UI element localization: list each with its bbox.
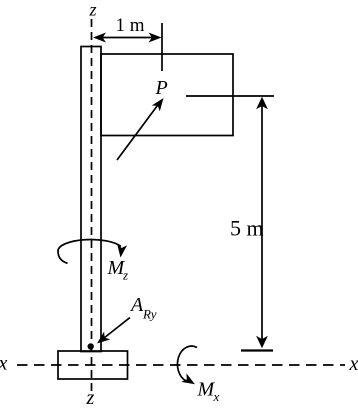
- svg-text:A: A: [129, 294, 144, 316]
- reaction A_Ry leader arrow: [102, 318, 131, 341]
- force P arrow: [117, 103, 160, 160]
- pole (vertical column): [81, 47, 101, 352]
- svg-text:z: z: [86, 387, 95, 409]
- svg-text:1 m: 1 m: [116, 15, 145, 36]
- dimension 5 m line: [261, 99, 263, 346]
- dimension 5 m bottom tick: [241, 349, 273, 351]
- dimension 5 m top arrowhead: [256, 97, 268, 110]
- svg-text:x: x: [0, 353, 8, 375]
- dimension 1 m right arrowhead: [149, 33, 162, 43]
- node A (pin dot): [88, 343, 94, 349]
- base block: [58, 351, 128, 379]
- dimension 1 m extension tick: [161, 23, 163, 71]
- svg-text:z: z: [89, 0, 97, 20]
- dimension 1 m left arrowhead: [93, 33, 106, 43]
- svg-text:x: x: [213, 389, 220, 404]
- svg-text:z: z: [122, 268, 128, 283]
- dimension 5 m bottom arrowhead: [256, 336, 268, 349]
- moment Mz curved arrow: [58, 239, 121, 263]
- svg-text:Ry: Ry: [142, 307, 157, 322]
- moment Mx curved arrow: [177, 346, 197, 381]
- wire z-axis dashed centerline: [91, 19, 93, 392]
- sign centerline leader: [186, 95, 274, 97]
- svg-text:P: P: [155, 77, 168, 99]
- wire x-axis dashed line: [17, 364, 345, 366]
- svg-text:x: x: [349, 353, 358, 375]
- sign panel: [101, 54, 233, 136]
- svg-text:5 m: 5 m: [230, 216, 264, 241]
- dimension 1 m line: [96, 37, 158, 39]
